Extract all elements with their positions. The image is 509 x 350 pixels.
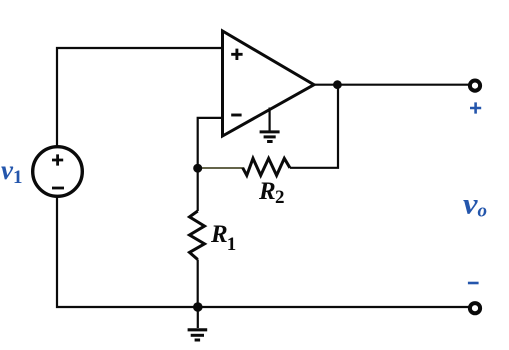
svg-text:1: 1 bbox=[227, 234, 237, 255]
svg-text:R: R bbox=[210, 221, 228, 248]
svg-text:o: o bbox=[478, 201, 488, 222]
svg-text:R: R bbox=[258, 178, 276, 205]
svg-text:v: v bbox=[463, 188, 478, 221]
svg-text:1: 1 bbox=[13, 167, 23, 188]
svg-text:2: 2 bbox=[275, 187, 285, 208]
